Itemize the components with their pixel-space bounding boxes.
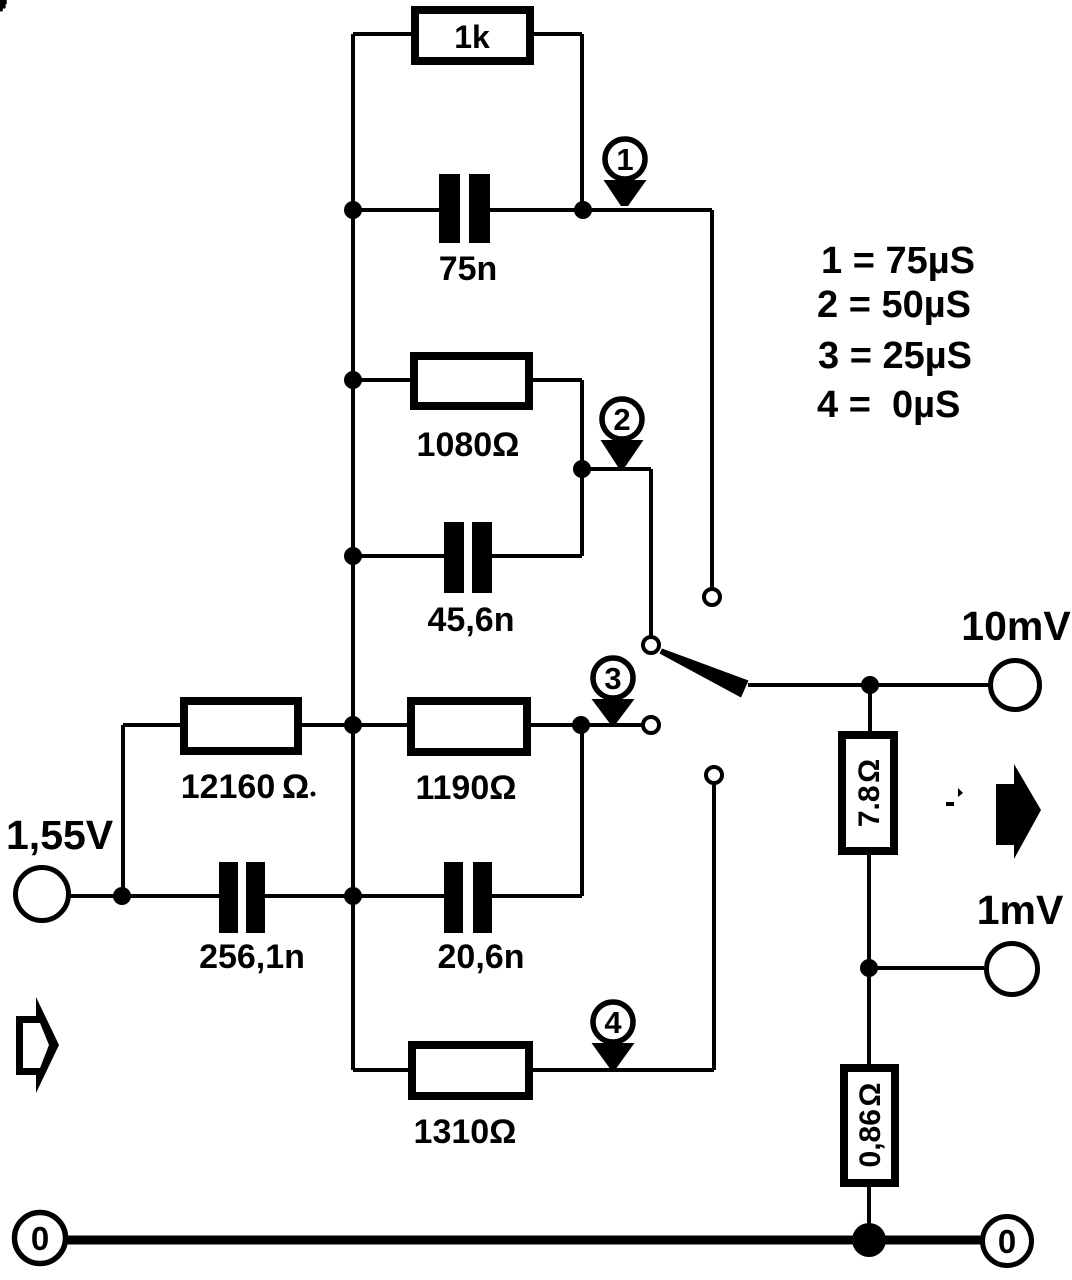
wire: 12160 left drop to input	[121, 725, 125, 896]
terminal 1mV	[987, 944, 1038, 995]
wire: ground bus	[67, 1236, 981, 1245]
junction 45,6n left	[344, 547, 362, 565]
svg-text:1310Ω: 1310Ω	[414, 1113, 517, 1151]
junction 75n left	[344, 201, 362, 219]
wire: 45,6n row left	[353, 554, 444, 558]
wire: 1k right to right bus	[534, 32, 582, 36]
junction bus input row	[344, 887, 362, 905]
wire: 20,6n right	[492, 894, 582, 898]
svg-text:10mV: 10mV	[961, 603, 1071, 649]
wire: 1mV node down to 0,86 ohm	[867, 968, 871, 1064]
wire: 1080 row left	[353, 378, 410, 382]
junction ground node	[852, 1223, 886, 1257]
terminal 0 left	[15, 1213, 66, 1264]
scan speck 1	[958, 788, 963, 797]
switch contact 3	[643, 717, 659, 733]
wire: 256,1n to 20,6n	[265, 894, 444, 898]
switch contact 2 (pivot)	[643, 637, 659, 653]
wire: 1080 down to node 2	[580, 380, 584, 469]
wire: 1080 row right	[533, 378, 582, 382]
svg-text:1,55V: 1,55V	[6, 812, 114, 858]
switch contact 4	[706, 767, 722, 783]
wire: node 2 to contact 2 column	[582, 467, 651, 471]
wire: 1310 right to contact 4 column	[533, 1068, 714, 1072]
svg-text:45,6n: 45,6n	[428, 601, 515, 639]
svg-text:2 = 50µS: 2 = 50µS	[817, 284, 971, 326]
svg-text:1 = 75µS: 1 = 75µS	[821, 240, 975, 282]
junction 1080 left	[344, 371, 362, 389]
wire: contact 2 drop	[649, 469, 653, 636]
wire: switch output to 10mV	[748, 683, 989, 687]
resistor 1310 ohm	[412, 1045, 529, 1096]
resistor 1080 ohm	[414, 356, 529, 406]
capacitor 256,1n	[219, 862, 238, 933]
corner scan mark	[0, 0, 7, 11]
svg-text:0: 0	[998, 1223, 1016, 1260]
resistor 0,86 ohm	[844, 1068, 895, 1183]
arrow in (outline)	[16, 997, 59, 1093]
node 2 balloon	[601, 399, 644, 467]
svg-text:20,6n: 20,6n	[438, 938, 525, 976]
wire: 7.8 ohm to 1mV node	[867, 855, 871, 968]
wire: 1190 right to node 3	[531, 723, 643, 727]
resistor 12160 ohm	[184, 701, 298, 751]
svg-text:1: 1	[616, 142, 633, 177]
junction node 2	[573, 460, 591, 478]
wire: 0,86 ohm to ground	[867, 1187, 871, 1240]
svg-text:3: 3	[604, 661, 621, 696]
wire: 12160 left lead	[123, 723, 180, 727]
switch lever	[660, 649, 749, 698]
svg-text:1190Ω: 1190Ω	[415, 769, 516, 807]
terminal 0 right	[983, 1217, 1032, 1266]
wire: 1mV node to terminal	[869, 966, 984, 970]
junction 1mV node	[860, 959, 878, 977]
wire: 45,6n row right	[492, 554, 582, 558]
svg-text:0,86 Ω: 0,86 Ω	[854, 1083, 887, 1168]
switch contact 1	[704, 589, 720, 605]
wire: 1310 row stub	[353, 1068, 408, 1072]
wire: contact 1 drop	[710, 210, 714, 588]
svg-text:4: 4	[604, 1005, 622, 1040]
arrow out (solid)	[996, 764, 1041, 859]
junction input	[113, 887, 131, 905]
svg-text:7.8 Ω: 7.8 Ω	[853, 759, 886, 827]
wire: right bus down to 75n row	[580, 34, 584, 210]
resistor 7.8 ohm	[842, 735, 894, 851]
junction 75n right	[574, 201, 592, 219]
speck after 12160 label	[311, 792, 316, 797]
wire: input terminal to cap 256,1n	[69, 894, 219, 898]
wire: 20,6n up to node 3	[580, 725, 584, 896]
wire: 12160 right to bus and 1190 left	[302, 723, 407, 727]
junction node 3	[572, 716, 590, 734]
svg-text:1mV: 1mV	[977, 887, 1064, 933]
scan speck 2	[946, 802, 954, 806]
resistor 1190 ohm	[411, 701, 527, 752]
svg-text:1080Ω: 1080Ω	[417, 426, 520, 464]
wire: 75n row right and to contact 1 column	[490, 208, 712, 212]
svg-text:75n: 75n	[439, 250, 498, 288]
svg-text:4 = 0µS: 4 = 0µS	[817, 384, 960, 426]
svg-text:1k: 1k	[454, 19, 490, 55]
svg-text:2: 2	[613, 402, 630, 437]
svg-text:256,1n: 256,1n	[199, 938, 305, 976]
svg-text:0: 0	[31, 1220, 49, 1257]
node 1 balloon	[604, 139, 647, 206]
capacitor 45,6n	[444, 522, 464, 593]
terminal 10mV	[991, 661, 1040, 710]
terminal 1,55V	[16, 868, 69, 921]
capacitor 20,6n	[444, 862, 463, 933]
junction 10mV node	[861, 676, 879, 694]
wire: 75n row left	[353, 208, 439, 212]
wire: 45,6n up to node 2	[580, 469, 584, 556]
svg-text:12160 Ω: 12160 Ω	[181, 768, 310, 806]
wire: top stub to 1k	[353, 32, 411, 36]
wire: contact 4 rise	[712, 784, 716, 1070]
wire: main left bus vertical	[351, 34, 355, 1070]
svg-text:3 = 25µS: 3 = 25µS	[818, 335, 972, 377]
junction bus 1190 row	[344, 716, 362, 734]
node 4 balloon	[592, 1002, 635, 1068]
wire: 10mV node down to 7.8 ohm	[868, 685, 872, 731]
capacitor 75n	[439, 174, 460, 243]
resistor 1k	[415, 10, 530, 61]
node 3 balloon	[592, 658, 635, 723]
